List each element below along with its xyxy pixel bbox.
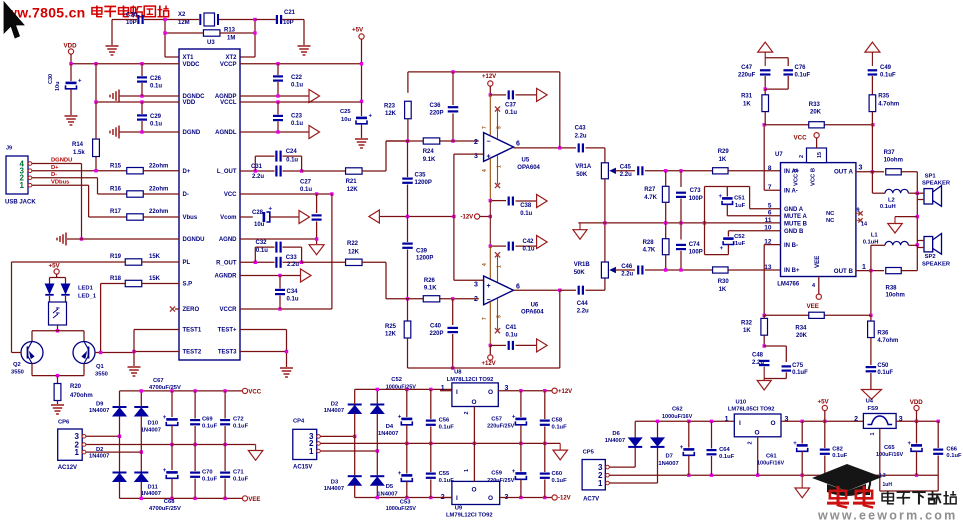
svg-text:-12V: -12V — [558, 496, 571, 502]
svg-text:O: O — [472, 487, 477, 494]
svg-text:10ohm: 10ohm — [884, 158, 903, 164]
svg-text:5: 5 — [497, 315, 503, 318]
svg-text:MUTE A: MUTE A — [784, 214, 807, 220]
capacitor C61 — [801, 421, 803, 443]
svg-text:0.1u: 0.1u — [291, 83, 303, 89]
capacitor C32 bypass loop — [254, 247, 256, 262]
port arrow AGNDL — [309, 126, 320, 139]
wire FS9 pin1 ground — [879, 428, 881, 491]
resistor R29 — [713, 168, 729, 174]
svg-text:1000uF/25V: 1000uF/25V — [386, 385, 417, 391]
wire VCCR vertical — [331, 194, 333, 309]
svg-text:USB JACK: USB JACK — [5, 200, 36, 206]
svg-text:C60: C60 — [552, 471, 563, 477]
watermark graduation cap logo — [812, 464, 882, 496]
svg-text:11: 11 — [765, 217, 772, 224]
opto body box — [49, 296, 51, 302]
wire -12V output row — [500, 497, 552, 499]
svg-text:VDDC: VDDC — [183, 62, 201, 68]
capacitor C30 — [70, 64, 72, 81]
svg-text:3: 3 — [474, 282, 478, 289]
wire U6 feedback bottom rail — [408, 367, 560, 369]
ground — [106, 45, 119, 47]
svg-text:1: 1 — [862, 264, 866, 271]
wire emitters join — [31, 364, 33, 376]
U6 trim pin 5 stub — [497, 298, 499, 329]
svg-text:+: + — [487, 283, 491, 290]
svg-text:R33: R33 — [809, 102, 821, 108]
svg-text:D7: D7 — [666, 454, 673, 460]
resistor R24 — [423, 138, 440, 144]
wire R_OUT row — [240, 261, 275, 263]
wire VDbus — [32, 184, 89, 186]
wire TEST+ TEST3 to ground — [240, 329, 287, 331]
capacitor C55 — [430, 443, 432, 472]
svg-text:VR1B: VR1B — [574, 262, 591, 268]
capacitor C22 — [273, 75, 283, 77]
wire OUT A row — [856, 171, 884, 173]
svg-text:10u: 10u — [341, 117, 351, 123]
svg-text:C66: C66 — [946, 446, 957, 452]
LED LED1 — [56, 274, 58, 278]
resistor R35 — [869, 95, 876, 112]
resistor R25 — [407, 299, 409, 321]
capacitor C35 — [407, 141, 409, 177]
svg-text:FS9: FS9 — [868, 406, 879, 412]
svg-text:AGNDL: AGNDL — [215, 130, 237, 136]
svg-text:VCCR: VCCR — [219, 307, 237, 313]
svg-text:C51: C51 — [734, 196, 745, 202]
svg-text:IN B+: IN B+ — [784, 268, 800, 274]
capacitor C70 — [194, 445, 196, 472]
op-amp U6 OPA604 — [484, 276, 514, 305]
resistor R31 — [764, 89, 766, 95]
svg-text:15: 15 — [817, 152, 823, 158]
capacitor C60 — [544, 443, 546, 472]
svg-text:0.1u: 0.1u — [506, 333, 518, 339]
svg-text:R14: R14 — [72, 142, 84, 148]
svg-text:C32: C32 — [256, 240, 268, 246]
svg-text:I: I — [456, 495, 458, 502]
wire bias vertical pin3 to pin3 — [453, 154, 455, 280]
svg-text:1N4007: 1N4007 — [141, 491, 161, 497]
svg-text:C43: C43 — [575, 126, 587, 132]
svg-text:C76: C76 — [795, 65, 807, 71]
capacitor C31 — [275, 166, 277, 177]
ground arrow C48 — [757, 381, 771, 391]
svg-text:2: 2 — [474, 139, 478, 146]
svg-text:VEE: VEE — [807, 303, 819, 310]
svg-text:0.1u: 0.1u — [256, 248, 268, 254]
svg-text:4: 4 — [482, 169, 488, 172]
U5 V- pin stub — [489, 159, 491, 201]
svg-text:1K: 1K — [743, 328, 751, 334]
U5 trim pin 5 stub — [497, 110, 499, 139]
svg-text:+12V: +12V — [482, 74, 496, 80]
svg-text:C26: C26 — [150, 76, 162, 82]
svg-text:X2: X2 — [178, 12, 186, 18]
svg-text:1N4007: 1N4007 — [141, 428, 161, 434]
svg-text:0.1uF: 0.1uF — [202, 424, 218, 430]
capacitor C34 — [279, 276, 281, 289]
svg-text:C28: C28 — [252, 210, 264, 216]
capacitor C28 — [263, 212, 266, 222]
svg-text:C82: C82 — [832, 446, 843, 452]
svg-text:IN B-: IN B- — [784, 243, 798, 249]
svg-text:C30: C30 — [48, 74, 54, 84]
resistor R18 — [125, 280, 142, 286]
svg-text:R17: R17 — [110, 209, 122, 215]
svg-text:+: + — [163, 468, 167, 474]
op-amp U5 OPA604 — [484, 133, 514, 162]
svg-text:2.2u: 2.2u — [620, 172, 632, 178]
svg-text:C56: C56 — [439, 418, 450, 424]
svg-text:6: 6 — [516, 284, 520, 291]
svg-text:10P: 10P — [126, 20, 137, 26]
diode D3 — [348, 475, 362, 477]
svg-text:L1: L1 — [871, 232, 879, 238]
svg-text:XT1: XT1 — [183, 55, 195, 61]
svg-text:+: + — [398, 471, 402, 477]
svg-text:0.1uF: 0.1uF — [719, 454, 735, 460]
wire CP4 pin1 — [321, 450, 378, 452]
svg-text:O: O — [488, 389, 493, 396]
wire DGND row — [119, 131, 179, 133]
svg-text:1N4007: 1N4007 — [658, 461, 678, 467]
capacitor C57 — [520, 391, 522, 417]
svg-text:2.2u: 2.2u — [575, 133, 587, 139]
svg-text:0.1u: 0.1u — [150, 122, 162, 128]
resistor R38 — [886, 268, 902, 274]
wire +5V input rail — [635, 420, 734, 422]
port arrow C38 — [537, 195, 548, 208]
svg-text:R25: R25 — [385, 324, 397, 330]
capacitor C56 — [430, 389, 432, 419]
wire OUT A zobel column — [871, 125, 873, 172]
wire LED split to transistors — [32, 330, 84, 332]
wire U5 feedback top rail — [408, 71, 560, 73]
svg-text:C24: C24 — [286, 149, 298, 155]
svg-text:10u: 10u — [55, 82, 61, 91]
svg-text:LED1: LED1 — [78, 286, 94, 292]
svg-text:R19: R19 — [110, 254, 122, 260]
svg-text:C62: C62 — [672, 406, 683, 412]
resistor R19 — [125, 259, 142, 265]
svg-text:13: 13 — [764, 264, 772, 271]
wire VCCP rail — [361, 39, 363, 101]
svg-text:C21: C21 — [284, 10, 296, 16]
svg-text:R29: R29 — [718, 149, 730, 155]
diode D7 — [651, 446, 665, 448]
svg-text:7: 7 — [482, 126, 488, 129]
svg-text:0.1u: 0.1u — [150, 84, 162, 90]
svg-text:D6: D6 — [612, 431, 620, 437]
capacitor C29 — [137, 114, 147, 116]
wire AGND row — [240, 238, 317, 240]
svg-text:0.1uF: 0.1uF — [795, 73, 811, 79]
svg-text:3550: 3550 — [11, 370, 24, 376]
wire R22 feed — [239, 261, 241, 263]
wire test ground column — [133, 330, 135, 367]
svg-text:220P: 220P — [430, 331, 444, 337]
svg-text:VCC: VCC — [794, 135, 808, 142]
svg-text:1: 1 — [497, 265, 503, 268]
svg-text:OUT A: OUT A — [834, 169, 854, 176]
svg-text:C70: C70 — [202, 470, 213, 476]
capacitor C47 — [764, 52, 766, 66]
svg-text:AGNDR: AGNDR — [215, 274, 238, 280]
wire CP6 pin3 — [86, 435, 120, 437]
svg-text:3: 3 — [785, 416, 789, 423]
wire speaker SP1 terminals — [917, 192, 924, 194]
resistor R15 — [127, 168, 144, 174]
wire U6 inverting row — [386, 298, 423, 300]
wire AGNDP row — [240, 95, 309, 97]
svg-text:220P: 220P — [430, 110, 444, 116]
capacitor C45 — [637, 166, 639, 175]
svg-text:SP1: SP1 — [925, 174, 937, 180]
wire CP4 pin3 — [321, 435, 355, 437]
wire speaker SP2 terminals — [917, 240, 924, 242]
svg-text:-12V: -12V — [461, 215, 474, 221]
wire — [165, 32, 204, 34]
wire TEST2 row — [134, 351, 179, 353]
svg-text:C75: C75 — [792, 363, 804, 369]
svg-text:GND A: GND A — [784, 207, 804, 213]
svg-text:Q2: Q2 — [13, 362, 21, 368]
svg-text:0.1uF: 0.1uF — [946, 453, 962, 459]
svg-text:4.7ohm: 4.7ohm — [877, 338, 898, 344]
svg-text:R31: R31 — [741, 94, 753, 100]
diode D11 — [134, 472, 148, 474]
diode D6 — [628, 446, 642, 448]
wire op-amp negative supply vertical — [489, 201, 491, 217]
resistor R23 — [405, 101, 412, 119]
capacitor C24 bypass loop — [254, 156, 256, 171]
svg-text:0.1u: 0.1u — [300, 187, 312, 193]
capacitor C49 — [871, 52, 873, 66]
watermark chong chong characters — [837, 486, 840, 506]
svg-text:VEE: VEE — [248, 497, 260, 503]
svg-text:22ohm: 22ohm — [149, 164, 168, 170]
svg-text:OPA604: OPA604 — [517, 165, 540, 171]
capacitor C75 loop — [764, 345, 786, 347]
svg-text:+: + — [908, 441, 912, 447]
diode D4 — [370, 404, 384, 406]
capacitor C39 — [407, 217, 409, 243]
svg-text:U3: U3 — [207, 40, 215, 46]
svg-text:1K: 1K — [719, 287, 727, 293]
no-connect pin 14 — [856, 219, 860, 221]
ground arrow AC12V — [255, 445, 257, 451]
svg-text:1N4007: 1N4007 — [377, 492, 397, 498]
wire VCC row — [240, 193, 332, 195]
svg-text:R18: R18 — [110, 276, 122, 282]
svg-text:SP2: SP2 — [925, 254, 936, 260]
resistor R27 — [665, 171, 667, 186]
svg-text:C69: C69 — [202, 417, 213, 423]
resistor R14 — [93, 139, 100, 157]
svg-text:10ohm: 10ohm — [886, 293, 905, 299]
capacitor C74 — [680, 223, 682, 240]
capacitor C25 — [361, 101, 363, 116]
svg-text:9.1K: 9.1K — [424, 286, 437, 292]
svg-text:C34: C34 — [287, 289, 299, 295]
svg-text:10u: 10u — [254, 222, 265, 228]
svg-text:C40: C40 — [430, 324, 442, 330]
svg-text:C48: C48 — [752, 353, 764, 359]
svg-text:4.7K: 4.7K — [643, 248, 656, 254]
svg-text:C45: C45 — [620, 165, 632, 171]
svg-text:0.1u: 0.1u — [287, 297, 299, 303]
svg-text:+12V: +12V — [482, 361, 496, 367]
ground arrow — [309, 245, 324, 255]
capacitor C44 — [560, 289, 576, 291]
svg-text:LM79L12CI TO92: LM79L12CI TO92 — [446, 513, 493, 519]
svg-text:OPA604: OPA604 — [521, 310, 544, 316]
diode D2 lower — [113, 472, 127, 474]
svg-text:Vbus: Vbus — [183, 215, 198, 221]
svg-text:1200P: 1200P — [416, 256, 433, 262]
svg-text:O: O — [755, 429, 760, 436]
svg-text:0.1uF: 0.1uF — [552, 478, 568, 484]
svg-text:8: 8 — [768, 165, 772, 172]
svg-text:C58: C58 — [552, 418, 563, 424]
svg-text:C44: C44 — [577, 301, 589, 307]
svg-text:1N4007: 1N4007 — [89, 454, 109, 460]
svg-text:20K: 20K — [810, 110, 822, 116]
svg-text:1N4007: 1N4007 — [378, 431, 398, 437]
wire VCC rail — [120, 390, 243, 392]
svg-text:U4: U4 — [866, 398, 874, 404]
svg-text:NC: NC — [826, 211, 835, 217]
wire CP5 pin3 — [610, 466, 636, 468]
ground rotated — [118, 126, 120, 139]
capacitor C46 — [637, 266, 639, 275]
port arrow Vcom — [299, 211, 310, 224]
port arrow AGNDR — [301, 269, 312, 282]
wire DGNDU ground row — [67, 238, 179, 240]
svg-text:0.1u: 0.1u — [286, 158, 298, 164]
svg-text:VCC B: VCC B — [811, 168, 817, 186]
wire mid ground row — [578, 222, 780, 224]
svg-text:100uF/16V: 100uF/16V — [757, 460, 785, 466]
svg-text:C23: C23 — [291, 114, 303, 120]
svg-text:0.1u: 0.1u — [520, 211, 532, 217]
svg-text:R24: R24 — [423, 149, 435, 155]
svg-text:1: 1 — [725, 416, 729, 423]
svg-text:220uF: 220uF — [738, 73, 756, 79]
capacitor C36 — [452, 72, 454, 105]
inductor L2 — [871, 172, 873, 193]
port arrow AGNDP — [309, 90, 320, 103]
wire U5 output — [514, 147, 577, 149]
svg-text:1: 1 — [309, 447, 314, 456]
wire — [112, 19, 137, 21]
svg-text:SPEAKER: SPEAKER — [922, 181, 951, 187]
capacitor C42 — [490, 245, 506, 247]
pin 15 bump VCC — [807, 148, 827, 163]
port arrow C42 — [537, 236, 548, 249]
wire Q2 base from PL — [11, 262, 13, 353]
svg-text:2: 2 — [748, 441, 754, 444]
capacitor C43 — [578, 143, 580, 152]
svg-text:LM78L05CI TO92: LM78L05CI TO92 — [728, 407, 775, 413]
svg-text:S.P: S.P — [183, 282, 193, 288]
svg-text:220uF/25V: 220uF/25V — [487, 424, 515, 430]
resistor R26 — [423, 296, 440, 302]
resistor R16 — [127, 191, 144, 197]
svg-text:U6: U6 — [531, 303, 539, 309]
node XT2 vertical — [254, 20, 256, 58]
wire R34 row — [764, 314, 808, 316]
svg-text:1N4007: 1N4007 — [89, 408, 109, 414]
svg-text:D9: D9 — [96, 402, 104, 408]
svg-text:C33: C33 — [286, 255, 298, 261]
capacitor C41 — [490, 344, 506, 346]
svg-text:+5V: +5V — [818, 398, 830, 405]
svg-text:0.1uF: 0.1uF — [792, 370, 808, 376]
svg-text:0.1uF: 0.1uF — [439, 424, 455, 430]
wire U5 inverting row — [386, 140, 423, 142]
svg-text:XT2: XT2 — [225, 55, 237, 61]
svg-text:0.1uF: 0.1uF — [552, 424, 568, 430]
wire IN B- feedback column — [764, 244, 780, 246]
wire -12V bottom rail — [355, 497, 452, 499]
wire OUT B zobel column — [870, 271, 872, 316]
wire — [165, 19, 199, 21]
svg-text:C59: C59 — [491, 471, 502, 477]
wire +12V output row — [498, 390, 552, 392]
mouse cursor — [4, 2, 24, 38]
IC U7 LM4766 body — [781, 163, 856, 277]
ground arrow C61 rail — [801, 475, 803, 488]
port arrow AGND left — [369, 210, 380, 223]
svg-text:D2: D2 — [96, 447, 103, 453]
svg-text:O: O — [488, 495, 493, 502]
svg-text:AC12V: AC12V — [58, 465, 77, 471]
svg-text:3550: 3550 — [95, 372, 108, 378]
port arrow C37 — [537, 88, 548, 101]
svg-text:100P: 100P — [689, 250, 703, 256]
svg-text:12K: 12K — [347, 187, 359, 193]
svg-text:4.7K: 4.7K — [644, 195, 657, 201]
resistor R13 — [203, 30, 220, 36]
svg-text:AC15V: AC15V — [293, 464, 312, 470]
svg-text:C73: C73 — [690, 188, 702, 194]
capacitor C52 — [723, 237, 734, 240]
resistor R20 — [57, 376, 59, 384]
svg-text:12M: 12M — [178, 20, 190, 26]
svg-text:C57: C57 — [491, 416, 502, 422]
capacitor C53 — [406, 443, 408, 473]
svg-text:C67: C67 — [153, 378, 164, 384]
svg-text:2.2u: 2.2u — [752, 360, 764, 366]
svg-text:C50: C50 — [877, 363, 889, 369]
no-connect pin 9 — [856, 212, 860, 214]
svg-text:LED_1: LED_1 — [78, 294, 97, 300]
diode D5 — [370, 475, 384, 477]
svg-text:5: 5 — [497, 126, 503, 129]
svg-text:D2: D2 — [331, 401, 338, 407]
svg-text:1N4007: 1N4007 — [324, 486, 344, 492]
U5 trim pin 1 stub — [497, 155, 499, 184]
svg-text:U5: U5 — [522, 158, 530, 164]
resistor R34 — [809, 312, 825, 318]
regulator U9 LM79L12 — [452, 481, 500, 504]
svg-text:VCC A: VCC A — [793, 167, 799, 186]
svg-text:C52: C52 — [734, 234, 745, 240]
